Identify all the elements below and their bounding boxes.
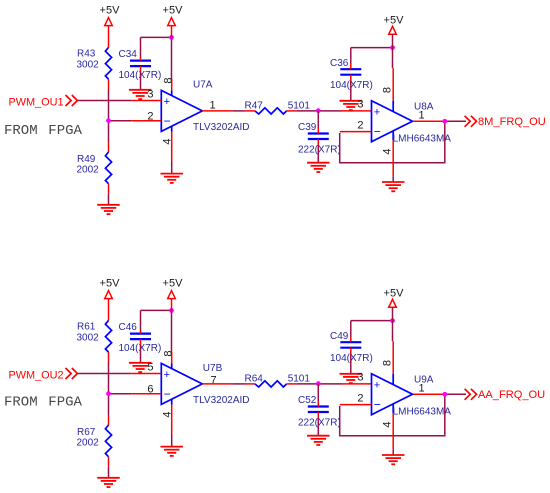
wire power line2 down to opamp1 pin8 <box>171 26 173 91</box>
op-amp U8A LMH6643MA <box>372 101 452 145</box>
power +5V symbol +5V (U7B) <box>163 278 184 299</box>
svg-text:222(X7R): 222(X7R) <box>298 418 341 429</box>
ground under cap1 <box>129 90 152 99</box>
power +5V symbol +5V (R61) <box>100 278 121 299</box>
node junction cap3/power <box>390 45 395 50</box>
svg-text:4: 4 <box>382 148 394 154</box>
svg-text:1: 1 <box>419 109 425 121</box>
svg-text:8: 8 <box>163 77 175 83</box>
svg-text:+5V: +5V <box>163 278 184 290</box>
power +5V symbol +5V (U7A) <box>163 5 184 26</box>
capacitor C36 104(X7R) <box>330 58 373 91</box>
svg-text:LMH6643MA: LMH6643MA <box>393 406 452 417</box>
svg-text:1: 1 <box>419 382 425 394</box>
svg-text:8: 8 <box>382 360 394 366</box>
wire cap2 bottom to ground <box>317 412 319 436</box>
svg-text:4: 4 <box>382 421 394 427</box>
output port AA_FRQ_OU <box>465 389 546 401</box>
wire cap3 top to power line3 <box>351 321 393 343</box>
wire opamp2 output to port <box>413 393 466 395</box>
wire feedback loop <box>340 121 445 162</box>
resistor R43 3002 <box>77 47 112 79</box>
svg-text:5101: 5101 <box>288 101 311 112</box>
node junction cap3/power <box>390 318 395 323</box>
capacitor C49 104(X7R) <box>330 331 373 364</box>
ground under cap3 <box>340 101 363 110</box>
pin stub opamp2 -input <box>340 404 372 406</box>
wire cap3 bottom to ground <box>350 348 352 374</box>
wire opamp1 output <box>202 383 245 385</box>
svg-text:5: 5 <box>147 362 153 374</box>
svg-text:+5V: +5V <box>384 14 405 26</box>
svg-text:C52: C52 <box>298 395 317 406</box>
pin stub opamp2 -input <box>340 131 372 133</box>
wire junction to cap2 <box>317 111 319 134</box>
svg-text:+5V: +5V <box>163 5 184 17</box>
op-amp U7B TLV3202AID <box>161 363 249 406</box>
ground under opamp1 <box>160 174 183 183</box>
wire opamp1 pin4 to ground <box>171 405 173 447</box>
node junction divider/pin2 <box>106 391 111 396</box>
power +5V symbol +5V (U9A) <box>384 287 405 307</box>
node junction output/feedback <box>442 119 447 124</box>
svg-text:+5V: +5V <box>100 5 121 17</box>
ground under cap3 <box>340 374 363 383</box>
svg-text:1: 1 <box>210 99 216 111</box>
ground under divider resistor <box>97 205 120 214</box>
svg-text:+5V: +5V <box>384 287 405 299</box>
svg-text:PWM_OU1: PWM_OU1 <box>9 96 64 108</box>
wire divider vertical from +5V to ground <box>108 299 110 478</box>
node junction cap1/power <box>169 308 174 313</box>
svg-text:−: − <box>164 114 171 128</box>
svg-text:3: 3 <box>147 89 153 101</box>
svg-text:R64: R64 <box>245 374 264 385</box>
svg-text:8: 8 <box>382 87 394 93</box>
pin stub opamp1 -input <box>131 393 161 395</box>
wire power3 down to opamp2 pin8 <box>392 307 395 373</box>
ground under cap2 <box>307 436 330 445</box>
resistor R47 5101 <box>245 101 311 115</box>
svg-text:TLV3202AID: TLV3202AID <box>193 122 250 133</box>
wire divider to pin2 <box>109 393 132 395</box>
wire cap1 top to power line <box>141 37 172 60</box>
svg-text:C34: C34 <box>119 49 138 60</box>
wire cap2 bottom to ground <box>317 139 319 163</box>
wire cap1 bottom to ground <box>140 339 142 362</box>
svg-text:C36: C36 <box>330 58 349 69</box>
svg-text:C49: C49 <box>330 331 349 342</box>
svg-text:222(X7R): 222(X7R) <box>298 145 341 156</box>
wire cap1 bottom to ground <box>140 66 142 89</box>
svg-text:2002: 2002 <box>77 165 100 176</box>
wire opamp2 pin4 to ground <box>392 140 394 182</box>
label FROM FPGA <box>4 395 83 411</box>
svg-text:2: 2 <box>357 392 363 404</box>
resistor R61 3002 <box>77 320 112 352</box>
svg-text:+: + <box>374 379 380 391</box>
svg-text:3002: 3002 <box>77 333 100 344</box>
svg-text:+: + <box>164 96 170 108</box>
svg-text:U7B: U7B <box>203 363 223 374</box>
svg-text:FROM: FROM <box>4 123 38 139</box>
resistor R64 5101 <box>245 374 311 388</box>
op-amp U9A LMH6643MA <box>372 374 452 418</box>
svg-text:2: 2 <box>147 110 153 122</box>
wire divider to pin2 <box>109 120 132 122</box>
capacitor C34 104(X7R) <box>119 49 162 81</box>
svg-text:LMH6643MA: LMH6643MA <box>393 133 452 144</box>
wire power3 down to opamp2 pin8 <box>392 34 395 100</box>
wire cap3 bottom to ground <box>350 75 352 101</box>
wire input to pin3 <box>78 373 131 375</box>
svg-text:PWM_OU2: PWM_OU2 <box>9 369 64 381</box>
output port 8M_FRQ_OU <box>465 116 546 128</box>
node junction res3/cap2 <box>316 108 321 113</box>
input port PWM_OU2 <box>9 368 78 381</box>
svg-text:+: + <box>164 369 170 381</box>
svg-text:2002: 2002 <box>77 438 100 449</box>
label FROM FPGA <box>4 123 83 139</box>
pin stub opamp1 +input <box>131 100 161 102</box>
svg-text:3: 3 <box>357 99 363 111</box>
power +5V symbol +5V (U8A) <box>384 14 405 34</box>
svg-text:AA_FRQ_OU: AA_FRQ_OU <box>478 389 545 401</box>
svg-text:C39: C39 <box>298 122 317 133</box>
op-amp U7A TLV3202AID <box>161 80 249 133</box>
svg-text:FPGA: FPGA <box>48 395 82 411</box>
node junction divider/pin2 <box>106 118 111 123</box>
svg-text:TLV3202AID: TLV3202AID <box>193 395 250 406</box>
svg-text:3002: 3002 <box>77 60 100 71</box>
resistor R49 2002 <box>77 152 112 184</box>
svg-text:8M_FRQ_OU: 8M_FRQ_OU <box>478 116 546 128</box>
ground under opamp2 <box>382 182 405 191</box>
power +5V symbol +5V (R43) <box>100 5 121 26</box>
svg-text:8: 8 <box>163 350 175 356</box>
capacitor C52 222(X7R) <box>298 395 341 429</box>
pin stub opamp1 +input <box>131 373 161 375</box>
ground under divider resistor <box>97 478 120 487</box>
wire opamp1 pin4 to ground <box>171 132 173 174</box>
svg-text:R49: R49 <box>77 154 96 165</box>
svg-text:+5V: +5V <box>100 278 121 290</box>
node junction cap1/power <box>169 35 174 40</box>
wire feedback loop <box>340 394 445 435</box>
wire opamp2 output to port <box>413 120 466 122</box>
wire divider vertical from +5V to ground <box>108 26 110 205</box>
svg-text:+: + <box>374 106 380 118</box>
wire resistor3 to junction to opamp2 pin3 <box>297 383 372 385</box>
wire cap1 top to power line <box>141 310 172 333</box>
capacitor C39 222(X7R) <box>298 122 341 156</box>
wire resistor3 to junction to opamp2 pin3 <box>297 110 372 112</box>
svg-text:FROM: FROM <box>4 395 38 411</box>
input port PWM_OU1 <box>9 95 78 108</box>
resistor R67 2002 <box>77 425 112 457</box>
svg-text:−: − <box>374 124 381 138</box>
svg-text:3: 3 <box>357 372 363 384</box>
ground under opamp1 <box>160 447 183 456</box>
ground under opamp2 <box>382 455 405 464</box>
node junction res3/cap2 <box>316 381 321 386</box>
wire junction to cap2 <box>317 384 319 407</box>
wire opamp2 pin4 to ground <box>392 413 394 455</box>
svg-text:R67: R67 <box>77 427 96 438</box>
wire cap3 top to power line3 <box>351 48 393 70</box>
wire input to pin3 <box>78 100 131 102</box>
ground under cap2 <box>307 163 330 172</box>
svg-text:C46: C46 <box>119 322 138 333</box>
svg-text:R47: R47 <box>245 101 264 112</box>
svg-text:−: − <box>374 397 381 411</box>
capacitor C46 104(X7R) <box>119 322 162 354</box>
svg-text:5101: 5101 <box>288 374 311 385</box>
ground under cap1 <box>129 363 152 372</box>
svg-text:R61: R61 <box>77 322 96 333</box>
svg-text:FPGA: FPGA <box>48 123 82 139</box>
svg-text:6: 6 <box>147 383 153 395</box>
svg-text:2: 2 <box>357 119 363 131</box>
node junction output/feedback <box>442 392 447 397</box>
wire opamp1 output <box>202 110 245 112</box>
svg-text:U7A: U7A <box>193 80 213 91</box>
svg-text:R43: R43 <box>77 49 96 60</box>
pin stub opamp1 -input <box>131 120 161 122</box>
wire power line2 down to opamp1 pin8 <box>171 299 173 364</box>
svg-text:−: − <box>164 387 171 401</box>
